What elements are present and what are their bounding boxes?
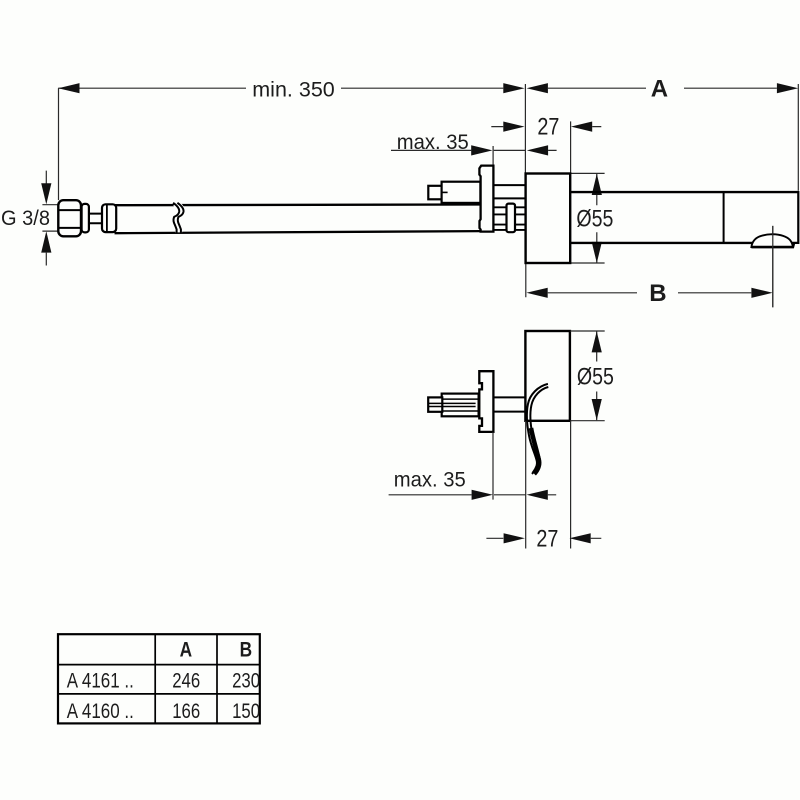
svg-text:27: 27: [537, 114, 559, 141]
svg-text:230: 230: [232, 670, 260, 693]
svg-text:Ø55: Ø55: [577, 364, 614, 391]
svg-text:G 3/8: G 3/8: [1, 207, 50, 230]
svg-text:min. 350: min. 350: [252, 77, 335, 101]
svg-text:B: B: [240, 639, 253, 662]
svg-text:A 4161 ..: A 4161 ..: [67, 669, 134, 692]
svg-text:B: B: [649, 280, 666, 307]
svg-text:246: 246: [172, 670, 200, 693]
svg-text:27: 27: [536, 526, 558, 553]
svg-text:150: 150: [232, 700, 260, 723]
svg-text:166: 166: [172, 700, 200, 723]
svg-text:max. 35: max. 35: [394, 468, 466, 492]
svg-text:Ø55: Ø55: [576, 206, 613, 233]
svg-text:A: A: [180, 639, 193, 662]
svg-text:A 4160 ..: A 4160 ..: [67, 700, 134, 723]
svg-text:A: A: [651, 76, 668, 103]
